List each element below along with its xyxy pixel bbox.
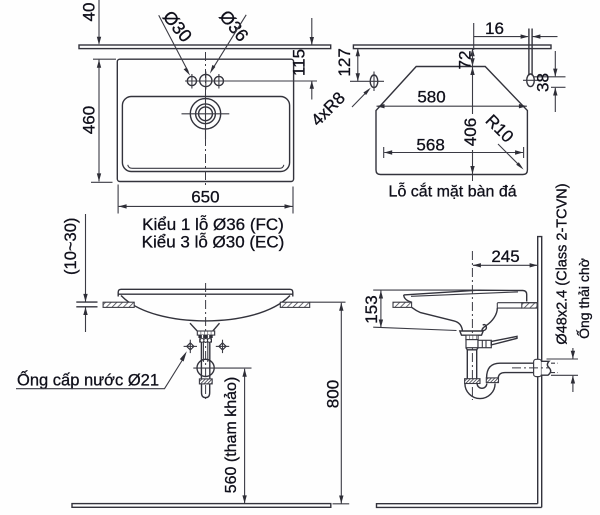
elbow inner [498,373,536,378]
svg-text:406: 406 [461,118,480,146]
svg-text:Ø36: Ø36 [215,6,252,45]
dim 580 line [377,105,527,107]
pop-up rod [491,336,517,345]
sink side front lip [404,295,412,302]
svg-text:Kiểu 1 lỗ Ø36 (FC): Kiểu 1 lỗ Ø36 (FC) [142,215,284,234]
svg-text:4xR8: 4xR8 [307,88,348,129]
svg-text:Ống cấp nước Ø21: Ống cấp nước Ø21 [17,370,159,390]
pipe taper [466,348,478,350]
svg-text:Kiểu 3 lỗ Ø30 (EC): Kiểu 3 lỗ Ø30 (EC) [142,233,285,252]
svg-text:38: 38 [534,73,553,92]
basin bottom inner line [128,165,284,169]
trap nut2 hatched [486,378,498,383]
dim 40 line [98,0,100,44]
counter hatch right (side) [522,303,537,308]
drain nut band with dots [199,338,212,342]
branch nut rings [478,340,491,347]
dim 568 ext ticks [383,147,385,158]
basin underside left [412,307,463,331]
tail pipe inner [202,342,204,362]
floor slab left [72,504,331,508]
faucet hole right Ø30 [214,76,223,85]
dim Ø48 arrows [572,348,574,359]
supply cross right [216,340,229,353]
holes axis line / ext for 115 [185,80,317,82]
svg-text:(10~30): (10~30) [62,218,80,275]
sink rim front [118,289,293,296]
dim 460 ext top [93,58,116,60]
dim 16 line right [532,36,557,38]
dim 406 line [472,67,474,114]
svg-text:Lỗ cắt mặt bàn đá: Lỗ cắt mặt bàn đá [389,182,517,201]
dim 153 ext top [373,289,478,291]
sink side rim inner edge [411,292,518,296]
funnel right [213,323,220,331]
dim 16 ext centerline [473,23,475,50]
floor slab right [377,504,542,508]
svg-text:Ống thải chờ: Ống thải chờ [575,258,592,339]
dim Ø48 ext lines [547,358,579,360]
svg-text:127: 127 [335,48,354,76]
svg-text:72: 72 [456,51,475,70]
elbow outer [487,363,536,378]
tee body [466,340,478,348]
drain nut A (side) [466,335,478,339]
overflow bump [482,325,487,331]
sink side rim top [404,290,527,301]
trap nut1 hatched [465,379,480,384]
counter hatch left (side) [393,302,412,307]
sink outer rim rect (plan) [117,59,293,181]
drain flange striped [197,331,214,335]
counter hatch right [280,302,309,307]
dim 650 line [119,205,293,207]
svg-text:245: 245 [491,247,519,266]
dim 153 ext bottom [373,327,456,330]
drain flange (side) [460,331,483,335]
centerline side [471,251,473,400]
lower nut hatched [199,379,212,384]
rim lower edge [118,293,293,295]
svg-text:568: 568 [416,136,444,155]
leader 4xR8 [352,90,369,108]
dim 72 line [472,48,474,66]
slot hole right [527,74,535,87]
dim 460 line [98,60,100,182]
wall stub + break [542,361,551,375]
leader Ø36 [212,15,246,70]
svg-text:580: 580 [417,87,445,106]
dim 568 line [384,152,523,154]
bulb crosshair / 560 ext [193,367,251,369]
dim 115 line [311,18,313,45]
svg-text:650: 650 [191,188,219,207]
faucet hole left Ø30 [187,76,196,85]
basin underside right [482,308,498,331]
hidden dashes [551,362,558,364]
leader Ø30 [159,15,189,72]
centerline cutout [472,51,474,66]
cutout outline [376,67,527,175]
standing pipe double line [528,29,530,76]
wall double line [538,237,542,508]
dim (10~30) line top [85,214,87,302]
centerline plan [205,52,207,187]
svg-text:16: 16 [485,19,504,38]
trap bulb [197,359,214,376]
dim 800 line [340,303,342,504]
supply cross left [184,340,197,353]
dim 650 ext lines [117,185,119,214]
dim 127 line [357,48,359,81]
counter edge slab (plan) [79,45,331,49]
counter edge slab (cut view) [353,45,551,49]
slot hole left axis / ext for 127 [350,80,384,82]
counter hatch left [103,302,134,307]
apron under counter [497,303,537,308]
drain ring band [198,335,212,338]
drain crosshair [182,113,230,115]
trap U inner [477,384,487,389]
drain circles (plan) [190,99,220,129]
counter break marks left [76,301,97,303]
dim (10~30) line bottom [85,307,87,332]
sink inner basin rect (plan) [122,97,289,172]
svg-text:Ø48x2.4 (Class 2-TCVN): Ø48x2.4 (Class 2-TCVN) [555,183,571,344]
svg-text:560 (tham khảo): 560 (tham khảo) [223,377,240,494]
svg-text:R10: R10 [482,111,517,146]
dim 153 line [380,291,382,328]
trap pipe centerline [512,367,549,369]
tail pipe outer [200,342,202,379]
dim 245 line [473,264,538,266]
wall escutcheon [534,359,542,376]
dim 38 ext lines [533,76,566,78]
centerline front [205,283,207,399]
bowl outer curve [121,296,290,321]
svg-text:40: 40 [79,3,98,22]
faucet hole center Ø36 [200,74,212,86]
dim 38 arrows [554,51,556,76]
label underline + leader [16,359,183,389]
leader R10 [498,144,521,167]
slot hole left [370,75,378,88]
tail end dome [202,384,210,398]
dim 560 line [244,369,246,504]
dim 16 line left [474,36,528,38]
svg-text:115: 115 [290,49,309,76]
trap U outer [465,384,495,399]
svg-text:460: 460 [79,106,98,134]
svg-text:153: 153 [362,295,381,323]
trap vertical pipe [466,350,468,379]
dim 460 ext bottom [91,181,113,183]
counter ext line right (for 800) [310,301,346,303]
funnel left [190,323,197,331]
floor ext line [333,503,350,505]
svg-text:800: 800 [324,380,343,408]
